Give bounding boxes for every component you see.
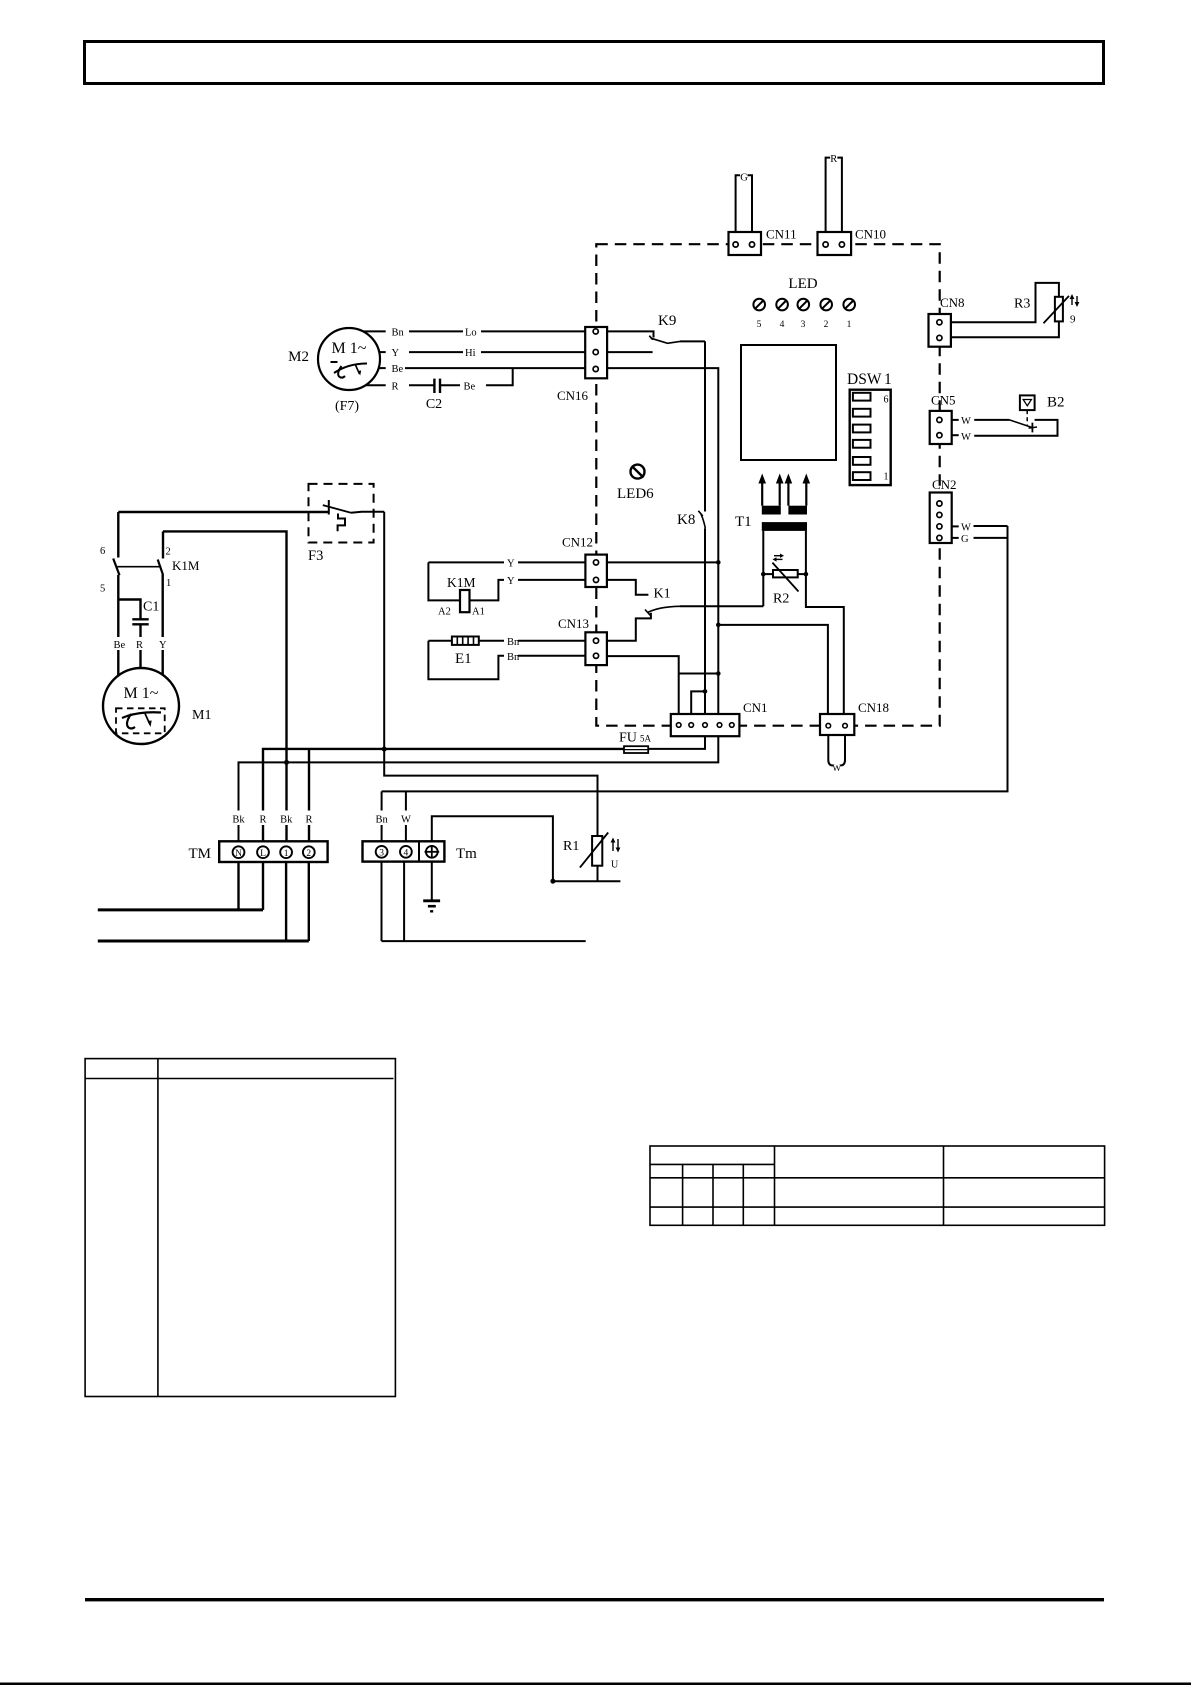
svg-text:5: 5 xyxy=(757,320,762,330)
svg-text:2: 2 xyxy=(824,320,829,330)
svg-text:W: W xyxy=(961,416,971,427)
svg-text:4: 4 xyxy=(404,849,409,859)
wire M2 Bn/Lo row xyxy=(363,330,585,332)
svg-text:Y: Y xyxy=(507,559,515,570)
svg-text:Y: Y xyxy=(159,640,167,651)
compressor motor M1 xyxy=(103,668,211,744)
svg-text:LED: LED xyxy=(788,276,817,292)
left table xyxy=(85,1059,395,1397)
svg-text:5A: 5A xyxy=(640,734,652,744)
wire TM terminal2 xyxy=(308,749,310,841)
wire CN2 W stub xyxy=(952,525,959,527)
wire K1M pin6 to F3 xyxy=(118,511,328,513)
connector CN13 xyxy=(558,616,607,665)
svg-text:CN18: CN18 xyxy=(858,700,889,715)
svg-text:C1: C1 xyxy=(143,600,159,615)
wire CN18 cable W below xyxy=(828,735,845,766)
terminal block Tm xyxy=(363,841,478,862)
capacitor C1 xyxy=(118,600,159,669)
svg-text:(F7): (F7) xyxy=(335,399,359,414)
svg-text:W: W xyxy=(961,523,971,534)
svg-text:R1: R1 xyxy=(563,839,579,854)
svg-text:Bn: Bn xyxy=(507,652,520,663)
wire G cable to CN11 xyxy=(736,175,752,232)
svg-text:Lo: Lo xyxy=(465,328,477,339)
svg-text:R2: R2 xyxy=(773,592,789,607)
connector CN16 xyxy=(557,327,607,403)
svg-text:2: 2 xyxy=(166,547,171,558)
mains feed wires below TM xyxy=(98,862,309,941)
LED 1 xyxy=(843,299,855,330)
thermistor R3 loop xyxy=(951,283,1080,337)
svg-text:3: 3 xyxy=(379,849,384,859)
thermal protector F3 xyxy=(308,484,384,564)
svg-text:G: G xyxy=(961,534,969,545)
svg-text:U: U xyxy=(611,860,619,871)
svg-text:DSW: DSW xyxy=(847,371,882,388)
svg-text:CN2: CN2 xyxy=(932,477,957,492)
svg-text:W: W xyxy=(961,432,971,443)
transformer T1 xyxy=(735,474,810,531)
svg-text:TM: TM xyxy=(189,846,212,862)
wire TM terminal1 lower xyxy=(285,762,287,841)
switch K9 xyxy=(607,313,705,352)
svg-text:CN11: CN11 xyxy=(766,227,797,242)
svg-text:Be: Be xyxy=(464,382,476,393)
wire F3 output down to fuse line and R1 xyxy=(384,512,597,836)
junction dot F3/fuse line xyxy=(382,747,387,752)
varistor R2 xyxy=(761,554,808,607)
svg-text:R: R xyxy=(392,382,399,393)
relay contact K8 xyxy=(677,341,705,714)
page bottom edge xyxy=(0,1683,1191,1685)
connector CN12 xyxy=(562,535,607,588)
svg-text:6: 6 xyxy=(100,546,105,557)
svg-text:K8: K8 xyxy=(677,512,695,528)
svg-text:CN12: CN12 xyxy=(562,535,593,550)
svg-text:1: 1 xyxy=(884,472,889,483)
svg-text:2: 2 xyxy=(306,849,311,859)
wire Tm pins 3,4 up xyxy=(382,791,406,841)
svg-text:1: 1 xyxy=(884,371,892,388)
junction dot N rail / terminal1 xyxy=(284,760,289,765)
wire M2 Y/Hi row xyxy=(379,351,585,353)
svg-text:Be: Be xyxy=(114,640,126,651)
wire Tm to CN2 rail xyxy=(382,526,1008,791)
svg-text:G: G xyxy=(740,173,748,184)
right table xyxy=(650,1146,1105,1225)
svg-text:FU: FU xyxy=(619,731,637,746)
ground symbol xyxy=(423,862,440,912)
svg-text:Be: Be xyxy=(392,364,404,375)
wires below Tm xyxy=(382,862,586,942)
wire CN13 pin2 to CN1 pin1 xyxy=(607,656,679,714)
LED 5 xyxy=(753,299,765,330)
svg-text:CN1: CN1 xyxy=(743,700,768,715)
svg-text:M1: M1 xyxy=(192,708,211,723)
svg-text:CN5: CN5 xyxy=(931,393,956,408)
svg-text:Tm: Tm xyxy=(456,846,477,862)
connector CN2 xyxy=(930,477,957,543)
wire N rail (TM N to CN1 pin4) xyxy=(239,736,719,841)
wire Be net vertical xyxy=(607,368,718,714)
svg-text:CN16: CN16 xyxy=(557,388,589,403)
svg-text:R: R xyxy=(136,640,143,651)
relay coil K1M xyxy=(428,559,585,618)
dip switch DSW 1 xyxy=(847,371,892,485)
wire color labels above Tm xyxy=(371,811,416,826)
wire T1 left leg xyxy=(762,531,764,606)
junction dot at R1 bottom line xyxy=(550,879,555,884)
svg-text:CN13: CN13 xyxy=(558,616,589,631)
junction dots on Be net xyxy=(716,560,721,565)
footer rule thick xyxy=(85,1598,1104,1601)
float switch B2 xyxy=(952,395,1065,443)
svg-text:Y: Y xyxy=(507,576,515,587)
svg-text:Bn: Bn xyxy=(392,328,405,339)
svg-text:T1: T1 xyxy=(735,514,752,530)
svg-text:F3: F3 xyxy=(308,548,323,564)
svg-text:LED6: LED6 xyxy=(617,486,654,502)
wire color labels above TM xyxy=(228,811,319,826)
svg-text:CN8: CN8 xyxy=(940,295,965,310)
svg-text:C2: C2 xyxy=(426,397,442,412)
fan motor M2 xyxy=(288,328,380,414)
wire M2 Be row xyxy=(379,367,586,369)
svg-text:1: 1 xyxy=(284,849,289,859)
title box xyxy=(85,42,1104,84)
svg-text:L: L xyxy=(260,849,266,859)
svg-text:K9: K9 xyxy=(658,313,676,329)
LED6 xyxy=(617,465,654,502)
svg-text:4: 4 xyxy=(780,320,785,330)
wire earth terminal to R1 bottom xyxy=(432,816,621,881)
wire L / fuse line xyxy=(263,749,624,841)
wire T1 right leg to CN18 pin2 xyxy=(806,531,844,714)
PCB dashed border xyxy=(596,244,939,726)
svg-text:Hi: Hi xyxy=(465,348,476,359)
svg-text:M 1~: M 1~ xyxy=(124,685,159,702)
svg-text:K1M: K1M xyxy=(172,558,200,573)
svg-text:R: R xyxy=(259,815,266,826)
LED 2 xyxy=(820,299,832,330)
connector CN5 xyxy=(930,393,956,445)
LED 4 xyxy=(776,299,788,330)
connector CN11 xyxy=(729,227,797,256)
svg-text:Bk: Bk xyxy=(280,815,293,826)
svg-text:M2: M2 xyxy=(288,349,309,365)
svg-text:Bn: Bn xyxy=(375,815,388,826)
wire labels Be R Y at M1 xyxy=(113,637,168,651)
svg-text:Y: Y xyxy=(392,348,400,359)
connector CN1 xyxy=(671,700,768,736)
svg-text:W: W xyxy=(401,815,411,826)
connector CN18 xyxy=(820,700,889,735)
svg-text:Bn: Bn xyxy=(507,637,520,648)
LED 3 xyxy=(798,299,810,330)
wire K1M pin2 to TM terminal 1 xyxy=(163,531,287,762)
thermistor R1 xyxy=(563,833,620,882)
svg-text:6: 6 xyxy=(884,395,889,406)
capacitor C2 and R row xyxy=(365,368,512,412)
heater E1 xyxy=(428,637,585,680)
svg-text:K1M: K1M xyxy=(447,575,476,590)
svg-text:N: N xyxy=(235,849,242,859)
wire Be net to CN18 pin1 xyxy=(718,625,828,714)
svg-text:1: 1 xyxy=(847,320,852,330)
svg-text:R: R xyxy=(305,815,312,826)
svg-text:CN10: CN10 xyxy=(855,227,886,242)
svg-text:5: 5 xyxy=(100,584,105,595)
wire CN2 G stub xyxy=(952,537,959,539)
svg-text:R3: R3 xyxy=(1014,297,1030,312)
svg-text:M 1~: M 1~ xyxy=(332,340,367,357)
svg-text:1: 1 xyxy=(166,578,171,589)
contactor contacts K1M xyxy=(100,512,200,676)
connector CN10 xyxy=(818,227,887,256)
svg-text:K1: K1 xyxy=(654,587,671,602)
svg-text:A1: A1 xyxy=(472,607,485,618)
svg-text:Bk: Bk xyxy=(232,815,245,826)
fuse FU 5A xyxy=(619,731,652,754)
wire R cable to CN10 xyxy=(826,158,842,232)
svg-text:W: W xyxy=(832,764,841,774)
svg-text:3: 3 xyxy=(801,320,806,330)
connector CN8 xyxy=(929,295,965,347)
wire fuse to CN1 pin3 xyxy=(648,736,705,749)
wire CN1 pin2 jog xyxy=(691,691,705,714)
relay contact K1 xyxy=(607,580,763,641)
svg-text:9: 9 xyxy=(1070,314,1076,326)
terminal block TM xyxy=(189,841,328,862)
wire CN1 pin1 branch to Be net xyxy=(679,673,719,675)
IC block xyxy=(741,345,836,460)
wire CN12 pin1 to Be net xyxy=(607,561,718,563)
svg-text:B2: B2 xyxy=(1047,395,1065,411)
svg-text:A2: A2 xyxy=(438,607,451,618)
svg-text:R: R xyxy=(830,154,837,165)
svg-text:E1: E1 xyxy=(455,651,472,667)
